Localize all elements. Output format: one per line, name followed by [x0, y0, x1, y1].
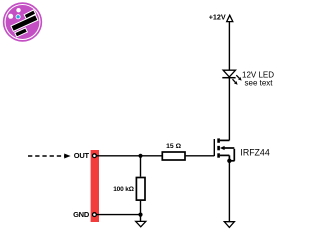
wire: +12V rail down to LED — [228, 22, 230, 70]
resistor R2 100 kohm — [136, 178, 145, 201]
ground symbol left — [136, 221, 146, 226]
dashed input arrow — [28, 154, 71, 159]
wire: GND to ground — [94, 214, 140, 216]
node: OUT junction dot — [138, 154, 142, 158]
wire: resistor to gate — [186, 155, 215, 157]
svg-text:IRFZ44: IRFZ44 — [240, 147, 269, 157]
svg-text:15 Ω: 15 Ω — [166, 143, 181, 150]
red connector bar — [91, 150, 99, 222]
svg-text:100 kΩ: 100 kΩ — [113, 186, 134, 193]
logo badge — [3, 2, 42, 41]
svg-text:see text: see text — [245, 78, 274, 87]
svg-text:+12V: +12V — [209, 12, 226, 21]
LED D1 — [222, 70, 241, 85]
wire: OUT junction down to R2 — [140, 156, 142, 177]
wire: LED cathode down to MOSFET drain — [228, 78, 230, 141]
wire: OUT to gate resistor — [94, 155, 161, 157]
pin circle OUT — [93, 154, 97, 158]
pin circle GND — [93, 213, 97, 217]
resistor R1 15 ohm — [162, 152, 185, 160]
power arrow +12V — [227, 15, 233, 21]
node: GND junction dot — [138, 213, 142, 217]
wire: R2 down to GND rail — [140, 201, 142, 222]
wire: source down to ground — [228, 161, 230, 222]
svg-text:GND: GND — [73, 210, 90, 219]
ground symbol right — [224, 222, 234, 228]
transistor Q1 IRFZ44 — [214, 138, 234, 163]
svg-text:OUT: OUT — [74, 151, 90, 160]
